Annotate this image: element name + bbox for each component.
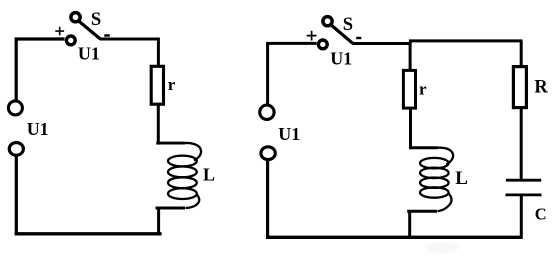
svg-text:S: S: [343, 15, 353, 35]
svg-text:U1: U1: [27, 119, 49, 139]
svg-text:U1: U1: [78, 44, 100, 64]
inductor L top stub (left circuit): [156, 142, 185, 145]
faint watermark smudge: [425, 242, 459, 253]
wire switch to junction (right circuit): [352, 42, 412, 45]
battery U1 terminal circle bottom (left circuit): [9, 143, 23, 156]
wire inductor to bottom wire (right circuit): [408, 211, 411, 238]
svg-text:S: S: [91, 10, 101, 30]
battery U1 terminal circle top (right circuit): [260, 105, 274, 119]
switch S lever (right circuit): [332, 26, 353, 44]
switch S lower contact circle (right circuit): [318, 40, 327, 49]
inductor L top arc (left circuit): [184, 143, 201, 160]
svg-text:r: r: [168, 75, 176, 94]
label + polarity (right circuit): [307, 31, 317, 41]
resistor r body (right circuit): [403, 70, 415, 108]
resistor R body (right circuit): [513, 67, 526, 108]
inductor L coil turn 4 (right circuit): [420, 187, 449, 197]
inductor L coil turn 2 (right circuit): [420, 168, 449, 178]
wire inductor to bottom wire (left circuit): [157, 207, 160, 235]
switch S upper contact circle (right circuit): [323, 17, 332, 26]
inductor L coil turn 2 (left circuit): [168, 167, 197, 178]
wire capacitor C to bottom wire (right circuit): [520, 196, 523, 239]
inductor L bottom stub (left circuit): [156, 207, 186, 210]
label - polarity (right circuit): [356, 37, 361, 39]
label - polarity (left circuit): [104, 34, 110, 37]
capacitor C top plate (right circuit): [506, 179, 541, 182]
wire left-circuit lower-left vertical: [15, 156, 18, 235]
svg-text:L: L: [203, 165, 215, 185]
svg-text:C: C: [535, 205, 547, 224]
switch S lever (left circuit): [79, 22, 100, 40]
label + polarity (left circuit): [55, 27, 64, 36]
wire top wire down to resistor R (right circuit): [520, 41, 523, 67]
inductor L top stub (right circuit): [410, 146, 438, 149]
wire left-circuit bottom: [15, 232, 162, 235]
inductor L coil turn 4 (left circuit): [168, 188, 197, 199]
inductor L bottom tail arc (left circuit): [186, 194, 200, 208]
inductor L coil turn 3 (right circuit): [420, 178, 449, 188]
inductor L coil turn 3 (left circuit): [168, 177, 197, 188]
svg-text:U1: U1: [330, 48, 352, 68]
wire junction to top-right (right circuit): [409, 39, 523, 42]
inductor L coil turn 1 (right circuit): [420, 158, 449, 168]
wire resistor r to inductor stub (left circuit): [157, 104, 160, 145]
switch S upper contact circle (left circuit): [71, 13, 80, 22]
battery U1 terminal circle bottom (right circuit): [261, 147, 275, 160]
inductor L top arc (right circuit): [437, 148, 454, 165]
capacitor C bottom plate (right circuit): [506, 193, 542, 196]
resistor r body (left circuit): [151, 66, 163, 104]
svg-text:U1: U1: [278, 124, 300, 144]
switch S lower contact circle (left circuit): [66, 36, 75, 45]
wire resistor r to inductor stub (right circuit): [409, 109, 412, 150]
wire resistor R to capacitor C (right circuit): [520, 108, 523, 181]
inductor L coil turn 1 (left circuit): [168, 156, 197, 167]
wire right-circuit lower-left vertical: [266, 160, 269, 239]
wire left-circuit top-right and down to resistor: [100, 39, 159, 66]
wire right-circuit bottom: [266, 236, 521, 239]
wire junction down to resistor r (right circuit): [409, 43, 412, 70]
svg-text:R: R: [534, 77, 548, 97]
inductor L bottom tail arc (right circuit): [438, 194, 452, 212]
wire right-circuit top-left corner: [268, 43, 317, 104]
svg-text:r: r: [419, 80, 427, 99]
battery U1 terminal circle top (left circuit): [8, 101, 22, 115]
svg-text:L: L: [455, 168, 468, 189]
wire left-circuit top-left corner: [16, 39, 64, 100]
inductor L bottom stub (right circuit): [407, 210, 437, 213]
